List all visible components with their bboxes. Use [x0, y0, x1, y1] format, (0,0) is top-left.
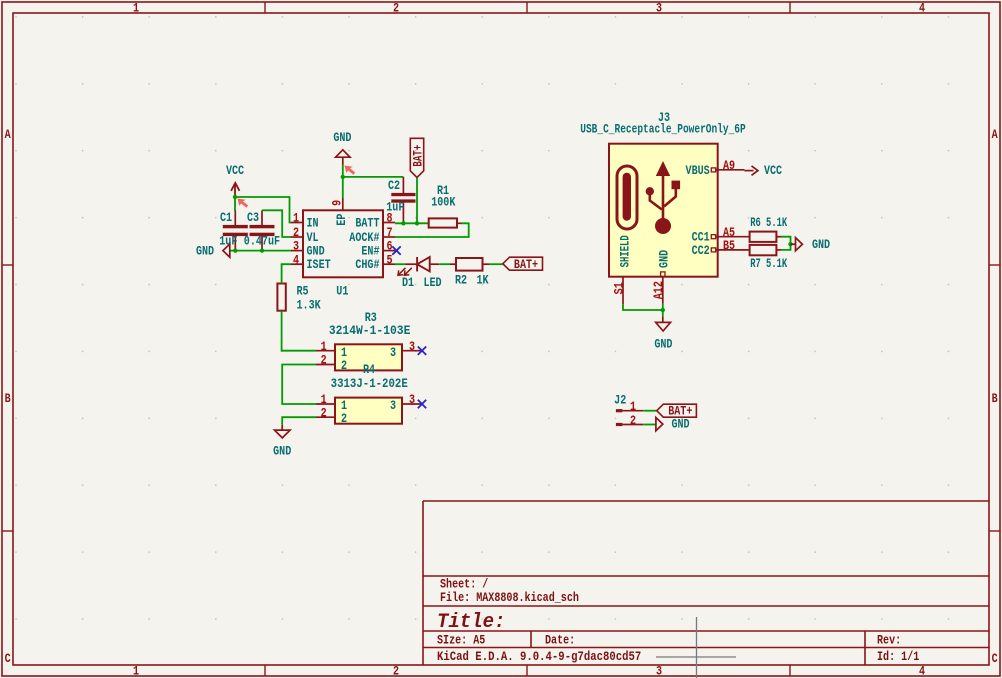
svg-text:BAT+: BAT+	[412, 144, 426, 166]
svg-text:B5: B5	[723, 240, 735, 253]
svg-text:1: 1	[341, 400, 347, 413]
svg-text:7: 7	[386, 227, 392, 240]
svg-text:3: 3	[390, 347, 396, 360]
svg-text:3214W-1-103E: 3214W-1-103E	[329, 323, 411, 338]
svg-text:GND: GND	[812, 239, 830, 252]
svg-text:SIze: A5: SIze: A5	[437, 635, 485, 648]
svg-text:1: 1	[133, 666, 139, 678]
svg-text:2: 2	[293, 227, 299, 240]
svg-text:2: 2	[393, 666, 399, 678]
svg-text:B: B	[5, 393, 11, 406]
svg-text:C2: C2	[388, 180, 400, 193]
svg-text:2: 2	[341, 360, 347, 373]
svg-text:S1: S1	[614, 282, 627, 294]
svg-text:GND: GND	[659, 250, 672, 268]
svg-text:Rev:: Rev:	[877, 635, 901, 648]
svg-text:GND: GND	[671, 419, 689, 432]
svg-text:A: A	[992, 129, 998, 142]
svg-text:Title:: Title:	[437, 610, 505, 633]
svg-text:4: 4	[293, 254, 299, 267]
svg-text:GND: GND	[307, 246, 325, 259]
svg-text:BAT+: BAT+	[514, 259, 538, 272]
svg-text:2: 2	[630, 415, 636, 428]
svg-text:1K: 1K	[476, 275, 488, 288]
svg-text:1: 1	[293, 213, 299, 226]
svg-text:VCC: VCC	[226, 165, 244, 178]
svg-text:2: 2	[341, 413, 347, 426]
svg-text:GND: GND	[196, 246, 214, 259]
svg-text:1: 1	[321, 394, 327, 407]
svg-text:3: 3	[390, 400, 396, 413]
svg-text:USB_C_Receptacle_PowerOnly_6P: USB_C_Receptacle_PowerOnly_6P	[580, 124, 746, 138]
svg-text:GND: GND	[273, 446, 291, 459]
svg-text:2: 2	[393, 3, 399, 16]
svg-text:IN: IN	[307, 218, 319, 231]
svg-text:R5: R5	[297, 286, 309, 299]
svg-text:Id: 1/1: Id: 1/1	[877, 651, 919, 664]
svg-text:1: 1	[133, 3, 139, 16]
svg-text:2: 2	[321, 407, 327, 420]
svg-text:A12: A12	[653, 281, 666, 299]
svg-text:VCC: VCC	[764, 165, 782, 178]
svg-text:C3: C3	[247, 212, 259, 225]
svg-text:File: MAX8808.kicad_sch: File: MAX8808.kicad_sch	[440, 592, 579, 605]
svg-text:C1: C1	[220, 212, 232, 225]
svg-text:3: 3	[656, 666, 662, 678]
svg-text:KiCad E.D.A. 9.0.4-9-g7dac80cd: KiCad E.D.A. 9.0.4-9-g7dac80cd57	[437, 649, 641, 664]
svg-text:3: 3	[293, 241, 299, 254]
svg-text:1.3K: 1.3K	[297, 300, 321, 313]
svg-text:CHG#: CHG#	[355, 259, 379, 272]
svg-text:R2: R2	[455, 275, 467, 288]
svg-text:GND: GND	[333, 132, 351, 145]
svg-text:2: 2	[321, 355, 327, 368]
svg-text:3313J-1-202E: 3313J-1-202E	[331, 376, 408, 391]
svg-text:B: B	[992, 393, 998, 406]
svg-text:LED: LED	[423, 277, 441, 290]
svg-text:BAT+: BAT+	[668, 406, 692, 419]
svg-text:A5: A5	[723, 227, 735, 240]
svg-text:0.47uF: 0.47uF	[244, 236, 280, 249]
svg-text:VBUS: VBUS	[686, 165, 710, 178]
svg-text:EP: EP	[336, 213, 349, 225]
svg-text:6: 6	[386, 241, 392, 254]
svg-text:A9: A9	[723, 160, 735, 173]
svg-text:3: 3	[656, 3, 662, 16]
svg-text:VL: VL	[307, 232, 319, 245]
svg-text:C: C	[992, 653, 998, 666]
svg-text:1uF: 1uF	[386, 202, 404, 215]
svg-text:CC2: CC2	[692, 245, 710, 258]
svg-text:R6 5.1K: R6 5.1K	[750, 217, 787, 231]
svg-text:3: 3	[409, 341, 415, 354]
svg-text:Sheet: /: Sheet: /	[440, 579, 488, 592]
svg-text:GND: GND	[654, 339, 672, 352]
svg-text:1: 1	[341, 347, 347, 360]
svg-text:C: C	[5, 653, 11, 666]
svg-text:CC1: CC1	[692, 232, 710, 245]
svg-text:100K: 100K	[431, 197, 455, 210]
svg-text:SHIELD: SHIELD	[619, 235, 633, 268]
svg-text:ISET: ISET	[307, 259, 331, 272]
svg-text:EN#: EN#	[361, 246, 379, 259]
svg-text:A: A	[5, 129, 11, 142]
svg-text:1: 1	[321, 341, 327, 354]
svg-text:BATT: BATT	[355, 218, 379, 231]
svg-text:D1: D1	[402, 277, 414, 290]
svg-text:4: 4	[919, 666, 925, 678]
svg-text:Date:: Date:	[545, 635, 575, 648]
svg-text:9: 9	[332, 200, 345, 206]
svg-text:1uF: 1uF	[219, 235, 237, 248]
svg-text:J2: J2	[614, 395, 626, 408]
svg-text:5: 5	[386, 254, 392, 267]
svg-text:U1: U1	[336, 286, 348, 299]
svg-text:1: 1	[630, 401, 636, 414]
svg-text:4: 4	[919, 3, 925, 16]
svg-text:AOCK#: AOCK#	[349, 232, 379, 245]
svg-text:3: 3	[409, 394, 415, 407]
svg-text:R7 5.1K: R7 5.1K	[750, 258, 787, 272]
